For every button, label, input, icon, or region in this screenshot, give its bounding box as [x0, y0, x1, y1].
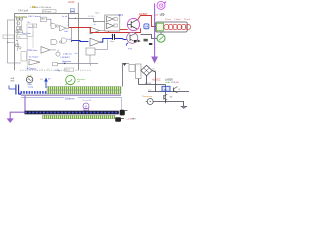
svg-text:1 4.4MHz 0.3W 2mA 5p: 1 4.4MHz 0.3W 2mA 5p — [30, 6, 52, 9]
svg-text:U4: U4 — [145, 25, 149, 29]
svg-text:Davz: Davz — [110, 41, 114, 43]
svg-text:1 DAC out: 1 DAC out — [63, 52, 72, 55]
svg-text:+in: +in — [94, 21, 96, 23]
svg-text:+5 VCC: +5 VCC — [152, 78, 161, 81]
svg-text:1.2mcd: 1.2mcd — [165, 19, 171, 21]
svg-text:7.4V 1mA: 7.4V 1mA — [18, 9, 29, 12]
svg-text:50Hz: 50Hz — [27, 84, 32, 86]
svg-text:OSC Control: OSC Control — [28, 15, 41, 18]
svg-text:GaAs 1.1W (Rt): GaAs 1.1W (Rt) — [165, 81, 179, 84]
svg-text:M: M — [85, 104, 87, 108]
svg-text:Full spec: Full spec — [43, 11, 51, 13]
svg-text:=0.7: =0.7 — [148, 89, 152, 91]
svg-text:div: div — [33, 26, 35, 28]
svg-text:1.2mcd: 1.2mcd — [184, 19, 190, 21]
svg-text:100mm: 100mm — [65, 96, 75, 100]
svg-text:LED: LED — [160, 15, 165, 17]
svg-text:1.2k: 1.2k — [17, 37, 20, 39]
svg-text:Ivc ref: Ivc ref — [62, 15, 68, 18]
svg-text:+5.0V: +5.0V — [68, 1, 75, 4]
svg-text:1.2mcd: 1.2mcd — [174, 19, 180, 21]
svg-text:PWM Gen: PWM Gen — [27, 50, 38, 52]
svg-text:Out1: Out1 — [64, 30, 68, 33]
svg-text:MAX4236A: MAX4236A — [15, 16, 27, 19]
svg-text:+1.5 BRT: +1.5 BRT — [126, 118, 136, 120]
svg-text:Thermistor: Thermistor — [142, 95, 153, 98]
svg-text:Bias: Bias — [28, 27, 32, 29]
svg-text:Out: Out — [75, 52, 78, 55]
svg-text:A Output: A Output — [27, 68, 36, 71]
svg-text:C MOSFET: C MOSFET — [60, 57, 71, 59]
svg-text:1 2 3 4 5: 1 2 3 4 5 — [88, 16, 94, 18]
svg-text:1/4 BRT: 1/4 BRT — [139, 13, 148, 16]
svg-text:-in: -in — [94, 24, 96, 26]
svg-text:1N4148: 1N4148 — [145, 83, 152, 85]
svg-text:SP1: SP1 — [119, 15, 124, 17]
svg-text:Q1: Q1 — [178, 89, 180, 91]
svg-text:Inv Output: Inv Output — [29, 55, 39, 58]
svg-text:16V: 16V — [10, 80, 14, 82]
svg-text:LM358: LM358 — [165, 78, 173, 81]
svg-text:M2: M2 — [170, 96, 173, 98]
svg-text:Out2: Out2 — [67, 38, 71, 41]
svg-text:Blu: Blu — [112, 35, 115, 37]
svg-text:Comp: Comp — [28, 87, 33, 89]
svg-text:SAW: SAW — [41, 17, 45, 20]
